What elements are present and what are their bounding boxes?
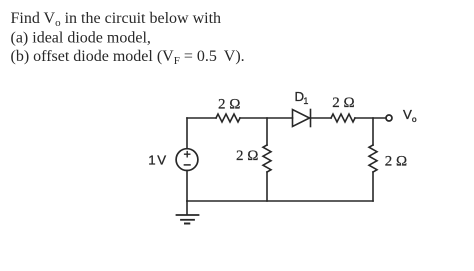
diode D1 cathode bar: [310, 110, 312, 127]
svg-text:V: V: [157, 153, 166, 168]
svg-text:Vo: Vo: [403, 107, 417, 124]
wire top middle (R1 to diode): [240, 117, 293, 119]
wire R2 to output node: [355, 117, 386, 119]
wire top-left horizontal: [187, 117, 216, 119]
ground bar 1: [177, 214, 199, 216]
svg-text:2 Ω: 2 Ω: [236, 148, 258, 164]
voltage source V1 1V circle: [176, 149, 198, 171]
wire right vertical lower: [372, 172, 374, 201]
wire left vertical lower (source to bottom wire): [186, 171, 188, 202]
wire bottom horizontal: [187, 200, 373, 202]
wire middle vertical upper: [266, 118, 268, 145]
svg-text:D1: D1: [295, 89, 309, 106]
ground stub: [186, 201, 188, 215]
voltage source plus sign: [185, 152, 190, 157]
terminal Vo open circle: [386, 115, 392, 121]
svg-text:(a) ideal diode model,: (a) ideal diode model,: [11, 30, 151, 47]
wire diode to R2: [311, 117, 332, 119]
svg-text:2 Ω: 2 Ω: [218, 96, 240, 112]
wire left vertical upper (source to top wire): [186, 118, 188, 149]
svg-text:(b) offset diode model (VF = 0: (b) offset diode model (VF = 0.5 V).: [11, 48, 245, 67]
ground bar 3: [185, 223, 189, 225]
resistor R1 2-ohm horizontal top-left: [216, 114, 240, 122]
voltage source minus sign: [184, 164, 190, 166]
ground bar 2: [181, 219, 194, 221]
svg-text:Find Vo in the circuit below w: Find Vo in the circuit below with: [11, 10, 222, 29]
resistor R4 2-ohm vertical right: [369, 145, 377, 172]
resistor R3 2-ohm vertical middle: [263, 145, 271, 172]
diode D1 triangle: [293, 110, 310, 127]
svg-text:2 Ω: 2 Ω: [385, 153, 407, 169]
resistor R2 2-ohm horizontal top-right: [331, 114, 355, 122]
wire middle vertical lower: [266, 172, 268, 201]
svg-text:2 Ω: 2 Ω: [332, 95, 354, 111]
svg-text:1: 1: [148, 153, 155, 168]
wire right vertical upper: [372, 118, 374, 145]
